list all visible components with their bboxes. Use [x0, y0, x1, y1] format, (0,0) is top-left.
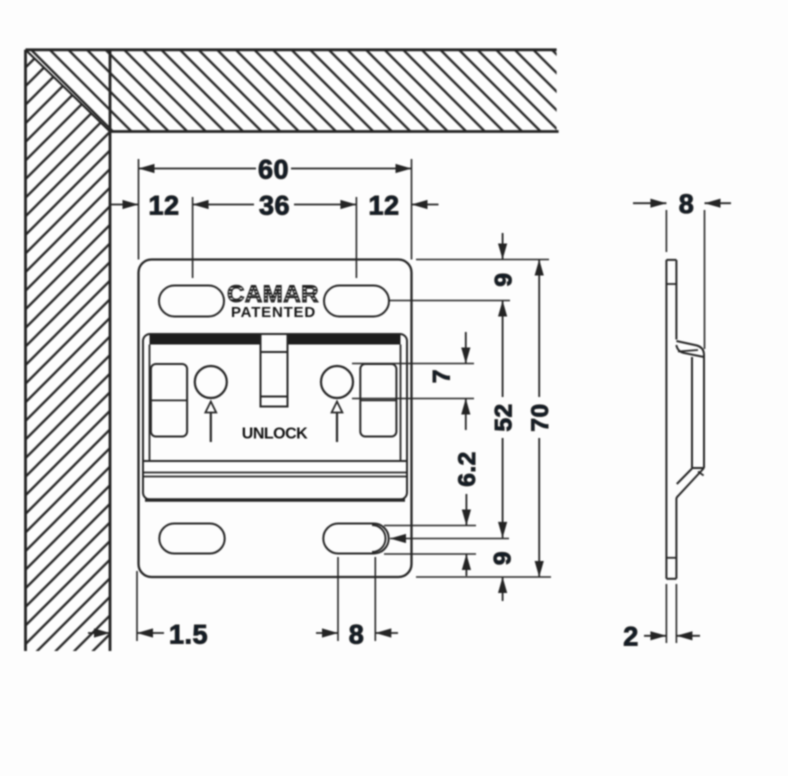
side dimension 8 left arrow [650, 199, 666, 208]
side extension line left for 8 [665, 210, 667, 252]
right side pocket [360, 364, 396, 437]
side dimension 8 right arrow [705, 199, 721, 208]
plate outline (front view) [139, 260, 412, 578]
central tab lower fold line [261, 396, 288, 398]
body lower band line 2 [143, 476, 407, 478]
dimension 6.2 lower arrow [462, 554, 471, 570]
side dimension 8 left tail [633, 202, 666, 204]
wall inner vertical edge [109, 50, 112, 651]
side dimension 8 right tail [705, 202, 732, 204]
dimension 12 left arrow [123, 200, 139, 209]
left adjuster circle [195, 366, 227, 398]
dimension 60 left arrow [139, 164, 155, 173]
central tab upper fold line [261, 351, 288, 353]
svg-text:8: 8 [349, 620, 365, 650]
svg-text:9: 9 [490, 551, 517, 565]
right side pocket divider [360, 399, 396, 401]
side view lower bend outer edge [676, 468, 704, 499]
extension line circle top tangent [352, 363, 474, 365]
dimension 7 line segments [465, 332, 467, 430]
side view lower tick [666, 557, 676, 559]
side extension line right for 8 [704, 210, 706, 349]
left side pocket divider [151, 399, 187, 401]
extension line plate bottom edge right [416, 576, 551, 578]
wall inner horizontal edge [110, 130, 559, 133]
extension line bottom slot bottom [384, 553, 476, 555]
body bottom edge thick [145, 498, 405, 501]
wall left band hatching [26, 50, 111, 651]
side view front edge upper [675, 260, 677, 340]
dimension 9 top lower arrow / 52 top arrow [498, 301, 507, 317]
side view bottom cap [666, 578, 676, 580]
dimension 6.2 line segments [465, 494, 467, 576]
svg-text:9: 9 [491, 272, 518, 286]
extension line bottom slot center with leader arrow [390, 538, 509, 540]
left unlock arrow (open head) [210, 412, 212, 442]
bottom-right mounting slot [323, 524, 388, 554]
side view lower bend fold corner [698, 472, 704, 476]
wall corner miter line [26, 50, 111, 132]
body thick top bar left segment [150, 335, 261, 345]
dimension 70 line [538, 260, 540, 578]
side view bulge rear wall [691, 357, 693, 468]
side dimension 2 left tail [644, 635, 666, 637]
dimension 1.5 left tail line [88, 632, 110, 634]
top-left mounting slot [159, 286, 224, 317]
bottom-left mounting slot [159, 524, 224, 554]
svg-text:36: 36 [259, 191, 290, 221]
extension line plate right edge [411, 159, 413, 260]
svg-text:UNLOCK: UNLOCK [242, 426, 308, 443]
svg-text:8: 8 [679, 189, 695, 219]
dimension 60 right arrow [396, 164, 412, 173]
extension line bottom slot arc center right [374, 557, 376, 641]
dimension 8 right tail line [375, 632, 398, 634]
body thick top bar right segment [288, 335, 401, 345]
body inner side line left [149, 345, 151, 462]
wall outer left edge [24, 50, 27, 651]
extension line bottom slot top [384, 525, 476, 527]
dimension 52 line lower segment [502, 438, 504, 538]
extension line plate bottom-left corner [136, 571, 138, 641]
side view upper tick [666, 283, 676, 285]
dimension 1.5 right tail line [137, 632, 164, 634]
dimension 36 line [193, 204, 357, 206]
extension line plate top edge right [416, 259, 549, 261]
dimension 7 upper arrow [461, 348, 470, 364]
extension line plate left edge [138, 159, 140, 260]
body inner side line right [400, 345, 402, 462]
side dimension 2 left arrow [650, 631, 666, 640]
dimension 70 top arrow [535, 260, 544, 276]
svg-text:12: 12 [148, 191, 179, 221]
side view lower bend inner edge [677, 469, 692, 485]
side extension lines for 2 [666, 584, 676, 643]
dimension 1.5 left arrow [94, 628, 110, 637]
dimension 36 left arrow [193, 200, 209, 209]
svg-text:2: 2 [623, 622, 639, 652]
dimension 12 left tail line [110, 204, 139, 206]
body lower horizontal line [143, 460, 407, 462]
dimension 9 bottom arrow and tail [502, 577, 504, 601]
extension line bottom slot arc center left [337, 557, 339, 641]
side view back edge (against wall) [665, 260, 667, 579]
dimension 60 line [139, 168, 412, 170]
dimension 7 lower arrow [461, 399, 470, 415]
central tab outline [261, 335, 288, 407]
extension line right slot center [355, 197, 357, 278]
extension line circle bottom tangent [352, 398, 474, 400]
dimension 8 right arrow [375, 628, 391, 637]
right unlock arrow (open head) [336, 412, 338, 442]
wall outer top edge [26, 48, 557, 51]
svg-text:7: 7 [429, 369, 456, 383]
side view lower bend cross line [692, 467, 704, 469]
bottom-right slot inner arc [372, 525, 386, 552]
side view bulge front wall [703, 354, 705, 468]
dimension 9 top line segments [502, 233, 504, 397]
left side pocket [151, 364, 187, 437]
svg-text:60: 60 [258, 155, 289, 185]
dimension 12 right tail line [412, 204, 439, 206]
dimension 70 bottom arrow [535, 561, 544, 577]
extension line left slot center [192, 197, 194, 278]
side view top cap [666, 259, 676, 261]
svg-text:PATENTED: PATENTED [231, 304, 316, 321]
dimension 8 left arrow [322, 628, 338, 637]
svg-text:70: 70 [527, 403, 554, 431]
side view upper bend inner edge [676, 345, 704, 357]
dimension 9 top upper arrow [498, 244, 507, 260]
side view front edge lower [675, 499, 677, 579]
right adjuster circle [321, 366, 353, 398]
side dimension 2 right arrow [676, 631, 692, 640]
extension line top slot center [389, 300, 510, 302]
dimension 6.2 upper arrow [462, 510, 471, 526]
svg-text:52: 52 [491, 403, 518, 431]
side view upper bend fold line [678, 350, 698, 352]
side view upper bend outer edge [676, 341, 704, 354]
svg-text:1.5: 1.5 [169, 620, 208, 650]
side dimension 2 right tail [676, 635, 700, 637]
svg-text:12: 12 [368, 191, 399, 221]
body lower band line 1 [143, 472, 407, 474]
body housing outline [143, 334, 407, 500]
dimension 36 right arrow [340, 200, 356, 209]
dimension 1.5 right arrow [137, 628, 153, 637]
dimension 52 bottom arrow [498, 522, 507, 538]
top-right mounting slot [324, 286, 389, 317]
svg-text:6.2: 6.2 [454, 451, 481, 487]
wall top band hatching [26, 50, 557, 132]
dimension 12 right arrow [412, 200, 428, 209]
dimension 8 left tail line [316, 632, 338, 634]
